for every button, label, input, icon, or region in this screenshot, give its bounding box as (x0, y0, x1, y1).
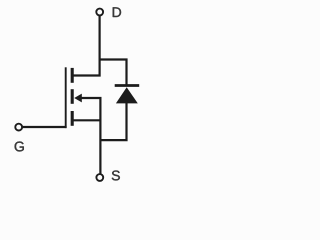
terminal S circle (96, 174, 103, 181)
transistor Q1 channel middle (body) segment (71, 89, 74, 104)
wire: gate horizontal (23, 126, 67, 128)
terminal G circle (15, 124, 22, 131)
transistor Q1 channel top (drain) segment (71, 68, 74, 83)
transistor Q1 channel bottom (source) segment (71, 111, 74, 126)
transistor Q1 gate bar (65, 67, 67, 128)
terminal D circle (96, 9, 103, 16)
label G (15, 142, 24, 152)
wire: body line right then down to S terminal (81, 98, 101, 174)
wire: source stub from channel to right vertical (72, 119, 102, 121)
wire: drain vertical from D down and stub left to channel (72, 16, 100, 76)
label D (113, 7, 121, 17)
diode D1 anode triangle (points up) (116, 87, 138, 103)
diode D1 cathode bar (115, 84, 140, 87)
transistor Q1 body arrow (points left into channel) (74, 94, 82, 103)
wire: drain branch right to diode cathode (99, 60, 127, 86)
label S (112, 171, 120, 181)
wire: source branch right and up to diode anode (100, 103, 127, 140)
